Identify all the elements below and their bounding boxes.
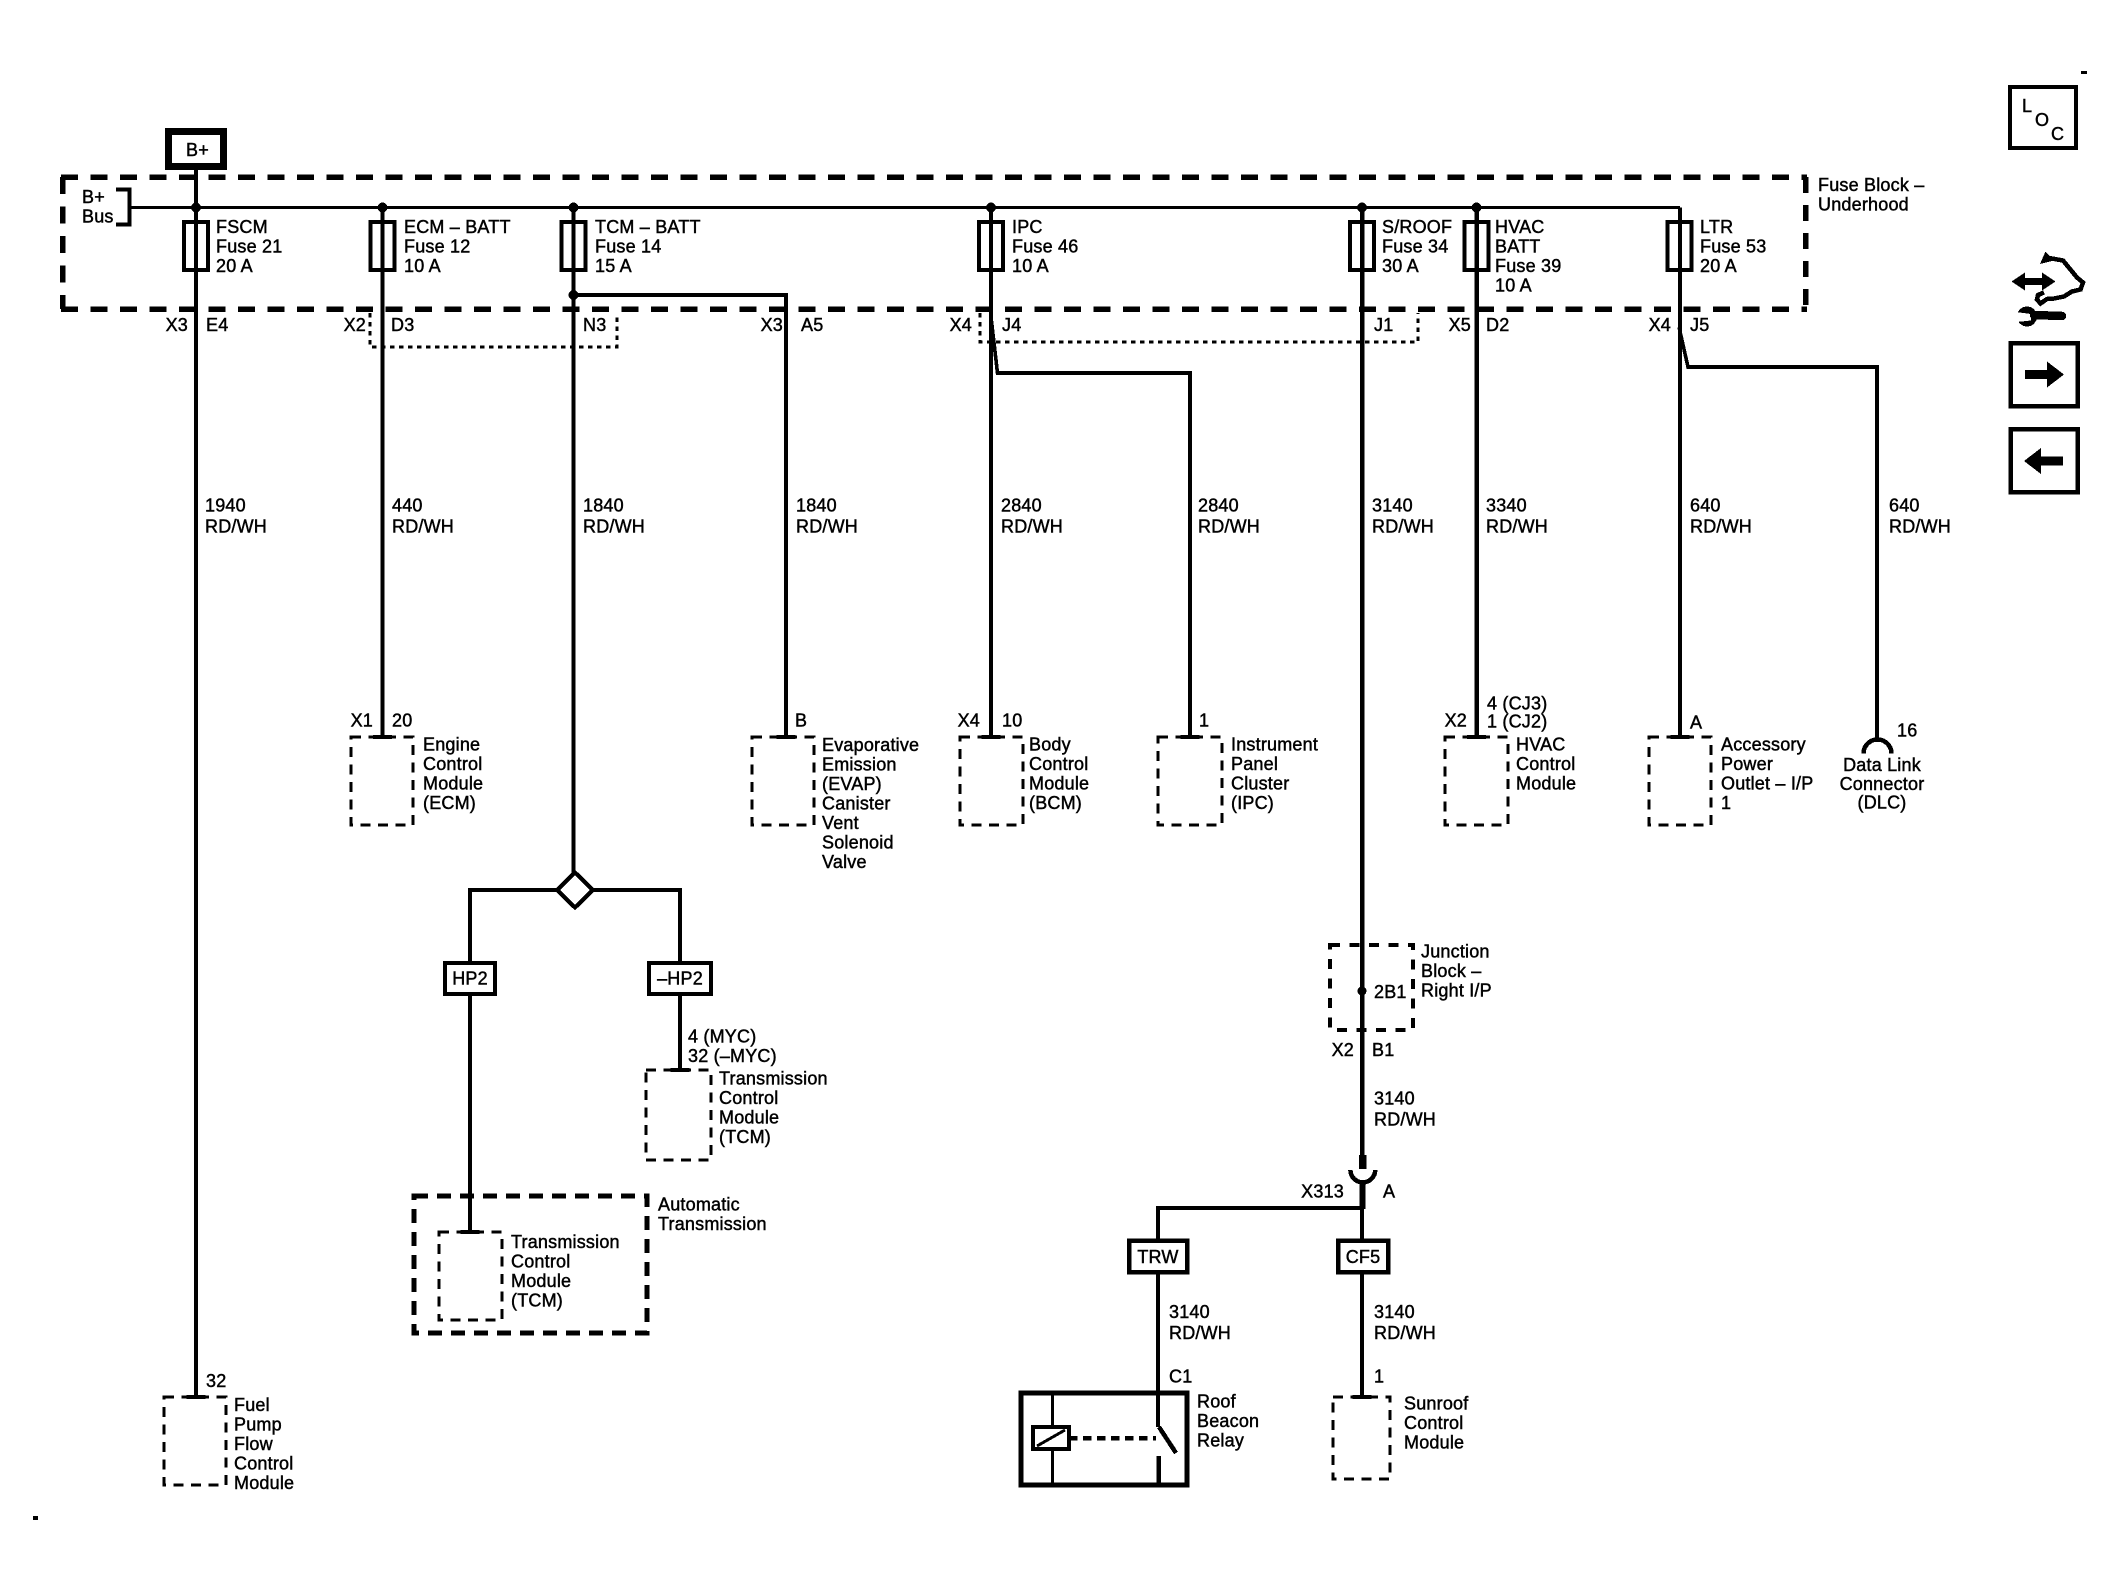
fuse block pin label X3 — [761, 315, 783, 335]
fuse F21 label FSCM Fuse 21 20 A — [216, 217, 282, 276]
relay actuation dashed link — [1069, 1436, 1156, 1441]
fuel pump pin label 32 — [206, 1371, 226, 1391]
svg-text:Evaporative: Evaporative — [822, 735, 919, 755]
svg-text:16: 16 — [1897, 721, 1917, 741]
wire label 1940 RD/WH — [205, 496, 267, 537]
ECM pin label X1 20 — [351, 711, 413, 731]
svg-text:X5: X5 — [1449, 315, 1471, 335]
svg-text:A5: A5 — [801, 315, 823, 335]
fuse F53 LTR — [1668, 222, 1692, 270]
svg-text:Control: Control — [511, 1252, 570, 1272]
svg-text:Instrument: Instrument — [1231, 735, 1318, 755]
ECM module label — [423, 735, 483, 814]
relay switch blade — [1159, 1427, 1176, 1453]
fuse block pin label N3 — [583, 315, 606, 335]
wire label 3340 RD/WH — [1486, 496, 1548, 537]
fuse F39 label HVAC BATT Fuse 39 10 A — [1495, 217, 1561, 296]
svg-text:RD/WH: RD/WH — [583, 517, 645, 537]
B+ Bus bracket — [116, 190, 130, 225]
wire label 3140 RD/WH below TRW — [1169, 1302, 1231, 1343]
svg-text:X4: X4 — [958, 711, 980, 731]
svg-text:Junction: Junction — [1421, 942, 1490, 962]
bus junction node at HVAC fuse — [1472, 203, 1482, 213]
svg-text:32: 32 — [206, 1371, 226, 1391]
svg-text:Transmission: Transmission — [658, 1214, 767, 1234]
fuse block X4 connector dotted outline — [980, 313, 1418, 342]
svg-text:30 A: 30 A — [1382, 256, 1419, 276]
junction block pin labels X2 B1 — [1332, 1040, 1395, 1060]
HP2 terminal box — [445, 963, 495, 994]
wire B+ to FSCM fuse and down to Fuel Pump module — [194, 166, 198, 1397]
Transmission Control Module (TCM) inner dashed box — [439, 1232, 502, 1320]
svg-text:(BCM): (BCM) — [1029, 793, 1082, 813]
svg-text:B+: B+ — [82, 187, 105, 207]
svg-text:X2: X2 — [1445, 711, 1467, 731]
svg-text:Solenoid: Solenoid — [822, 833, 894, 853]
speck bottom left — [33, 1516, 38, 1520]
wire IPC fuse column down to BCM — [989, 208, 993, 738]
Fuse Block - Underhood label — [1818, 175, 1924, 215]
svg-text:Data Link: Data Link — [1843, 755, 1922, 775]
svg-text:B: B — [795, 711, 807, 731]
fuse F39 HVAC BATT — [1465, 222, 1489, 270]
svg-text:(TCM): (TCM) — [719, 1127, 771, 1147]
svg-text:Module: Module — [423, 774, 483, 794]
svg-text:HVAC: HVAC — [1516, 735, 1565, 755]
fuse block pin label X4 — [950, 315, 972, 335]
svg-text:Power: Power — [1721, 754, 1773, 774]
svg-text:BATT: BATT — [1495, 237, 1540, 257]
svg-text:1840: 1840 — [796, 496, 837, 516]
svg-text:Accessory: Accessory — [1721, 735, 1806, 755]
svg-text:2840: 2840 — [1198, 496, 1239, 516]
svg-text:RD/WH: RD/WH — [1372, 517, 1434, 537]
svg-text:(DLC): (DLC) — [1858, 793, 1907, 813]
svg-text:IPC: IPC — [1012, 217, 1043, 237]
svg-text:10 A: 10 A — [1012, 256, 1049, 276]
svg-text:CF5: CF5 — [1346, 1247, 1381, 1267]
wire branch TCM fuse to EVAP valve — [574, 295, 787, 737]
fuse F14 TCM-BATT — [562, 222, 586, 270]
svg-text:Fuse 46: Fuse 46 — [1012, 237, 1078, 257]
svg-text:2840: 2840 — [1001, 496, 1042, 516]
splice diamond on TCM feed — [557, 873, 593, 908]
svg-text:(IPC): (IPC) — [1231, 793, 1274, 813]
IPC pin label 1 — [1199, 711, 1209, 731]
back arrow box — [2011, 429, 2078, 492]
wire branch J4 to Instrument Panel Cluster — [991, 317, 1190, 737]
svg-text:RD/WH: RD/WH — [1889, 517, 1951, 537]
wire label 1840 RD/WH — [583, 496, 645, 537]
wire diamond to HP2 — [470, 890, 557, 963]
svg-text:Control: Control — [1404, 1413, 1463, 1433]
HVAC pin labels X2 4(CJ3) 1(CJ2) — [1445, 694, 1548, 732]
Roof Beacon Relay box — [1021, 1393, 1187, 1485]
svg-text:1 (CJ2): 1 (CJ2) — [1487, 712, 1547, 732]
svg-text:32 (–MYC): 32 (–MYC) — [688, 1046, 777, 1066]
HVAC Control Module dashed box — [1445, 737, 1508, 825]
Sunroof Control Module dashed box — [1333, 1397, 1390, 1479]
fuse block pin label E4 — [206, 315, 228, 335]
svg-text:20 A: 20 A — [1700, 256, 1737, 276]
Data Link Connector (DLC) socket arc — [1864, 740, 1892, 754]
connector X313 labels X313 A — [1301, 1182, 1395, 1202]
wire HP2 to TCM (automatic transmission) — [468, 994, 472, 1232]
sunroof pin label 1 — [1374, 1367, 1384, 1387]
bus junction node at ECM fuse — [378, 203, 388, 213]
svg-text:RD/WH: RD/WH — [205, 517, 267, 537]
EVAP module label — [822, 735, 919, 872]
service icon double arrow — [2012, 273, 2056, 291]
svg-text:Fuse 34: Fuse 34 — [1382, 237, 1448, 257]
svg-text:Fuse Block –: Fuse Block – — [1818, 175, 1924, 195]
svg-text:640: 640 — [1690, 496, 1721, 516]
svg-text:X4: X4 — [1649, 315, 1671, 335]
svg-text:B+: B+ — [186, 140, 209, 160]
svg-text:Fuse 53: Fuse 53 — [1700, 237, 1766, 257]
svg-text:Module: Module — [234, 1473, 294, 1493]
fuse F46 IPC — [979, 222, 1003, 270]
svg-text:Canister: Canister — [822, 794, 891, 814]
svg-text:Valve: Valve — [822, 852, 867, 872]
fuse block pin label J5 — [1690, 315, 1709, 335]
wire label 1840 RD/WH — [796, 496, 858, 537]
svg-text:Module: Module — [1029, 774, 1089, 794]
svg-text:HP2: HP2 — [452, 969, 488, 989]
wire label 2840 RD/WH — [1198, 496, 1260, 537]
svg-text:D3: D3 — [391, 315, 414, 335]
wire label 3140 RD/WH below CF5 — [1374, 1302, 1436, 1343]
wire label 640 RD/WH — [1889, 496, 1951, 537]
junction block label — [1421, 942, 1492, 1001]
svg-text:20: 20 — [392, 711, 412, 731]
svg-text:Fuse 21: Fuse 21 — [216, 237, 282, 257]
fuse F53 label LTR Fuse 53 20 A — [1700, 217, 1766, 276]
svg-text:FSCM: FSCM — [216, 217, 268, 237]
HVAC module label — [1516, 735, 1576, 794]
connector X313 socket arc — [1350, 1170, 1375, 1182]
svg-text:Module: Module — [719, 1108, 779, 1128]
svg-text:3140: 3140 — [1374, 1302, 1415, 1322]
wire TRW to roof beacon relay — [1156, 1272, 1160, 1427]
B+ battery feed box — [169, 132, 224, 167]
svg-text:C: C — [2051, 124, 2064, 144]
wire diamond to -HP2 — [593, 890, 680, 963]
svg-text:3140: 3140 — [1374, 1089, 1415, 1109]
svg-text:J4: J4 — [1002, 315, 1021, 335]
svg-text:N3: N3 — [583, 315, 606, 335]
svg-text:B1: B1 — [1372, 1040, 1394, 1060]
svg-text:RD/WH: RD/WH — [796, 517, 858, 537]
wire label 440 RD/WH — [392, 496, 454, 537]
svg-text:Control: Control — [234, 1454, 293, 1474]
svg-text:J1: J1 — [1374, 315, 1393, 335]
TCM right module label — [719, 1069, 828, 1148]
Roof Beacon Relay label — [1197, 1392, 1259, 1451]
svg-text:Panel: Panel — [1231, 754, 1278, 774]
fuse block pin label A5 — [801, 315, 823, 335]
wire -HP2 to TCM — [678, 994, 682, 1070]
svg-text:Control: Control — [1516, 754, 1575, 774]
svg-text:Fuse 14: Fuse 14 — [595, 237, 661, 257]
svg-text:Fuel: Fuel — [234, 1395, 270, 1415]
svg-text:Engine: Engine — [423, 735, 480, 755]
wire CF5 to sunroof control module — [1360, 1272, 1364, 1397]
svg-text:Control: Control — [1029, 754, 1088, 774]
Instrument Panel Cluster (IPC) dashed box — [1158, 737, 1222, 825]
Transmission Control Module (TCM) right dashed box — [646, 1070, 711, 1160]
sunroof module label — [1404, 1394, 1469, 1453]
svg-text:X1: X1 — [351, 711, 373, 731]
EVAP canister vent solenoid valve dashed box — [752, 737, 814, 825]
svg-text:15 A: 15 A — [595, 256, 632, 276]
svg-text:O: O — [2035, 110, 2049, 130]
wire ECM-BATT fuse column — [381, 208, 385, 738]
svg-text:1: 1 — [1374, 1367, 1384, 1387]
svg-text:TCM – BATT: TCM – BATT — [595, 217, 701, 237]
svg-text:D2: D2 — [1486, 315, 1509, 335]
wire label 640 RD/WH — [1690, 496, 1752, 537]
speck top right — [2081, 71, 2087, 74]
wire LTR fuse column down to accessory power outlet — [1678, 208, 1682, 738]
fuse F12 ECM-BATT — [371, 222, 395, 270]
svg-text:HVAC: HVAC — [1495, 217, 1544, 237]
APO pin label A — [1690, 713, 1702, 733]
svg-text:A: A — [1690, 713, 1702, 733]
svg-text:X2: X2 — [344, 315, 366, 335]
svg-text:ECM – BATT: ECM – BATT — [404, 217, 511, 237]
svg-text:Cluster: Cluster — [1231, 774, 1289, 794]
svg-text:Right I/P: Right I/P — [1421, 981, 1492, 1001]
svg-text:A: A — [1383, 1182, 1395, 1202]
IPC module label — [1231, 735, 1318, 814]
svg-text:C1: C1 — [1169, 1367, 1192, 1387]
relay coil — [1033, 1427, 1069, 1449]
svg-text:X313: X313 — [1301, 1182, 1344, 1202]
svg-text:X3: X3 — [761, 315, 783, 335]
svg-text:Body: Body — [1029, 735, 1071, 755]
svg-text:Transmission: Transmission — [511, 1232, 620, 1252]
fuse block pin label D2 — [1486, 315, 1509, 335]
svg-text:Control: Control — [719, 1088, 778, 1108]
svg-text:Underhood: Underhood — [1818, 195, 1909, 215]
relay fixed contact stub — [1156, 1456, 1161, 1485]
svg-text:RD/WH: RD/WH — [1001, 517, 1063, 537]
svg-text:TRW: TRW — [1137, 1247, 1178, 1267]
Engine Control Module (ECM) dashed box — [351, 737, 413, 825]
svg-text:X4: X4 — [950, 315, 972, 335]
svg-text:Fuse 12: Fuse 12 — [404, 237, 470, 257]
svg-text:Vent: Vent — [822, 813, 859, 833]
svg-text:L: L — [2022, 96, 2032, 116]
svg-text:J5: J5 — [1690, 315, 1709, 335]
svg-text:RD/WH: RD/WH — [1690, 517, 1752, 537]
Junction Block - Right I/P dashed box — [1330, 945, 1413, 1030]
svg-text:RD/WH: RD/WH — [1198, 517, 1260, 537]
svg-text:640: 640 — [1889, 496, 1920, 516]
svg-text:4 (CJ3): 4 (CJ3) — [1487, 694, 1547, 714]
fuse block pin label J1 — [1374, 315, 1393, 335]
svg-text:RD/WH: RD/WH — [392, 517, 454, 537]
junction node TCM branch to EVAP — [569, 290, 579, 300]
svg-text:Automatic: Automatic — [658, 1195, 740, 1215]
wire X313 down to CF5 — [1359, 1182, 1366, 1242]
fuse block pin label J4 — [1002, 315, 1021, 335]
-HP2 terminal box — [649, 963, 711, 994]
fuel pump module label — [234, 1395, 294, 1493]
svg-text:E4: E4 — [206, 315, 228, 335]
Automatic Transmission label — [658, 1195, 767, 1235]
connector X313 pin — [1359, 1155, 1367, 1169]
fuse F12 label ECM-BATT Fuse 12 10 A — [404, 217, 511, 276]
svg-text:Fuse 39: Fuse 39 — [1495, 256, 1561, 276]
svg-text:4 (MYC): 4 (MYC) — [688, 1027, 756, 1047]
relay internal feed line — [1051, 1393, 1054, 1485]
B+ bus wire — [130, 206, 1681, 209]
svg-text:Module: Module — [1516, 774, 1576, 794]
fuse block X2 connector dotted outline — [370, 313, 617, 347]
svg-text:10 A: 10 A — [404, 256, 441, 276]
svg-text:X3: X3 — [166, 315, 188, 335]
TRW terminal box — [1129, 1241, 1187, 1273]
service icon panel outline — [2037, 252, 2083, 304]
svg-text:Pump: Pump — [234, 1415, 282, 1435]
bus junction node at IPC fuse — [986, 203, 996, 213]
svg-text:RD/WH: RD/WH — [1374, 1110, 1436, 1130]
svg-text:2B1: 2B1 — [1374, 982, 1407, 1002]
svg-text:Beacon: Beacon — [1197, 1411, 1259, 1431]
svg-text:LTR: LTR — [1700, 217, 1733, 237]
Fuel Pump Flow Control Module dashed box — [164, 1397, 226, 1485]
wire S/ROOF fuse column down to junction block — [1360, 208, 1365, 1156]
fuse F21 FSCM — [184, 222, 208, 270]
wire HVAC BATT fuse column — [1474, 208, 1479, 738]
wire TCM-BATT fuse column down to splice diamond — [572, 208, 576, 875]
svg-text:10: 10 — [1002, 711, 1022, 731]
svg-text:3340: 3340 — [1486, 496, 1527, 516]
CF5 terminal box — [1338, 1241, 1388, 1273]
wire branch J5 to Data Link Connector — [1679, 327, 1877, 739]
APO module label — [1721, 735, 1813, 814]
svg-text:Outlet – I/P: Outlet – I/P — [1721, 774, 1813, 794]
svg-text:Module: Module — [511, 1271, 571, 1291]
Fuse Block - Underhood dashed box — [61, 177, 1807, 309]
DLC label — [1840, 755, 1925, 813]
svg-text:1940: 1940 — [205, 496, 246, 516]
svg-text:Emission: Emission — [822, 755, 897, 775]
wire branch to TRW — [1158, 1208, 1362, 1242]
wire label 3140 RD/WH — [1372, 496, 1434, 537]
svg-text:(EVAP): (EVAP) — [822, 774, 882, 794]
Accessory Power Outlet dashed box — [1649, 737, 1711, 825]
fuse F34 label S/ROOF Fuse 34 30 A — [1382, 217, 1452, 276]
EVAP pin label B — [795, 711, 807, 731]
fuse block pin label X3 — [166, 315, 188, 335]
forward arrow box — [2011, 343, 2078, 406]
bus junction node at FSCM — [191, 203, 201, 213]
service icon wrench — [2012, 307, 2062, 327]
svg-text:(ECM): (ECM) — [423, 793, 476, 813]
fuse block pin label X2 — [344, 315, 366, 335]
relay pin label C1 — [1169, 1367, 1192, 1387]
svg-text:Roof: Roof — [1197, 1392, 1237, 1412]
wire label 2840 RD/WH — [1001, 496, 1063, 537]
B+ Bus label — [82, 187, 114, 227]
BCM module label — [1029, 735, 1089, 814]
fuse block pin label X4 — [1649, 315, 1671, 335]
svg-text:RD/WH: RD/WH — [1169, 1323, 1231, 1343]
svg-text:440: 440 — [392, 496, 423, 516]
fuse F34 S/ROOF — [1350, 222, 1374, 270]
svg-text:Sunroof: Sunroof — [1404, 1394, 1469, 1414]
wire label 3140 RD/WH below junction block — [1374, 1089, 1436, 1130]
bus junction node at S/ROOF fuse — [1357, 203, 1367, 213]
svg-text:RD/WH: RD/WH — [1486, 517, 1548, 537]
svg-text:Control: Control — [423, 754, 482, 774]
svg-text:Connector: Connector — [1840, 774, 1925, 794]
svg-text:S/ROOF: S/ROOF — [1382, 217, 1452, 237]
fuse block pin label X5 — [1449, 315, 1471, 335]
-HP2 pin labels 4 (MYC) 32 (-MYC) — [688, 1027, 777, 1067]
BCM pin label X4 10 — [958, 711, 1023, 731]
junction block node 2B1 — [1358, 982, 1407, 1002]
svg-text:20 A: 20 A — [216, 256, 253, 276]
fuse F46 label IPC Fuse 46 10 A — [1012, 217, 1078, 276]
Body Control Module (BCM) dashed box — [960, 737, 1023, 825]
svg-text:–HP2: –HP2 — [657, 969, 703, 989]
Automatic Transmission outer dashed box — [414, 1196, 647, 1333]
svg-text:1840: 1840 — [583, 496, 624, 516]
fuse F14 label TCM-BATT Fuse 14 15 A — [595, 217, 701, 276]
fuse block pin label D3 — [391, 315, 414, 335]
bus junction node at TCM fuse — [569, 203, 579, 213]
svg-text:Block –: Block – — [1421, 961, 1481, 981]
DLC pin label 16 — [1897, 721, 1917, 741]
svg-text:1: 1 — [1721, 793, 1731, 813]
svg-text:1: 1 — [1199, 711, 1209, 731]
svg-text:Bus: Bus — [82, 207, 114, 227]
svg-text:(TCM): (TCM) — [511, 1291, 563, 1311]
svg-text:Transmission: Transmission — [719, 1069, 828, 1089]
svg-text:X2: X2 — [1332, 1040, 1354, 1060]
svg-text:RD/WH: RD/WH — [1374, 1323, 1436, 1343]
svg-text:Module: Module — [1404, 1433, 1464, 1453]
LOC reference box — [2010, 87, 2076, 148]
svg-text:Relay: Relay — [1197, 1431, 1244, 1451]
TCM inner module label — [511, 1232, 620, 1311]
svg-text:Flow: Flow — [234, 1434, 274, 1454]
svg-text:10 A: 10 A — [1495, 276, 1532, 296]
svg-text:3140: 3140 — [1372, 496, 1413, 516]
svg-text:3140: 3140 — [1169, 1302, 1210, 1322]
